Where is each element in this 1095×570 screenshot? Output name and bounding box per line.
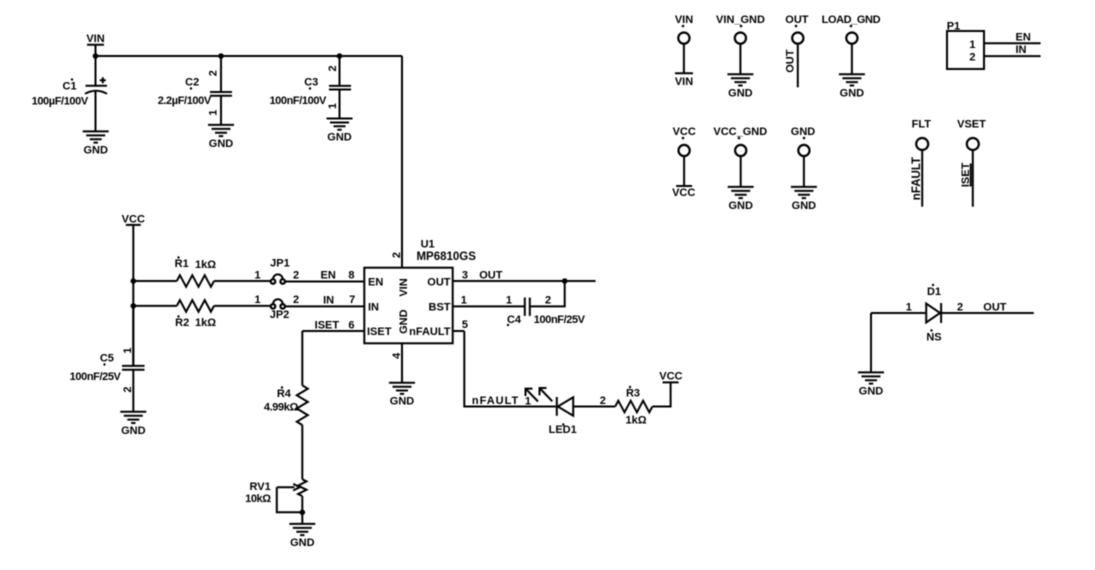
svg-text:FLT: FLT [912, 119, 932, 131]
node junction at C2 [218, 53, 224, 59]
wire RV1 to ground [301, 512, 303, 524]
svg-text:U1: U1 [421, 238, 435, 250]
svg-text:JP1: JP1 [270, 258, 290, 270]
wire D1 cathode to OUT [941, 302, 1034, 314]
resistor R1 1k [133, 256, 270, 287]
connector FLT (test point) [911, 119, 931, 207]
svg-text:LOAD_GND: LOAD_GND [822, 14, 881, 26]
svg-text:2: 2 [545, 295, 551, 307]
svg-text:GND: GND [791, 126, 816, 138]
diode D1 NS [871, 284, 963, 344]
svg-text:2: 2 [969, 52, 975, 64]
svg-text:EN: EN [321, 270, 336, 282]
svg-text:nFAULT: nFAULT [911, 157, 923, 200]
svg-text:VCC_GND: VCC_GND [713, 126, 767, 138]
svg-text:2: 2 [207, 70, 219, 76]
ground under C1 [83, 131, 109, 156]
svg-text:NS: NS [926, 332, 941, 344]
node junction OUT/C4 [562, 278, 568, 284]
svg-text:D1: D1 [927, 286, 941, 298]
wire U1 BST pin 1 to C4 [453, 295, 525, 307]
svg-text:C3: C3 [304, 77, 318, 89]
svg-text:C4: C4 [507, 314, 522, 326]
potentiometer RV1 10k [245, 479, 306, 512]
resistor R4 4.99k [264, 385, 308, 425]
connector P1 header [947, 21, 984, 70]
svg-text:100nF/100V: 100nF/100V [269, 95, 327, 107]
connector GND (test point) [791, 126, 816, 187]
ground under D1 [858, 372, 884, 397]
svg-text:1: 1 [506, 295, 512, 307]
svg-text:4.99kΩ: 4.99kΩ [264, 401, 299, 413]
svg-text:VIN: VIN [675, 14, 693, 26]
wire P1 pin 2 net IN [984, 44, 1041, 56]
svg-text:MP6810GS: MP6810GS [416, 251, 476, 263]
connector LOAD_GND [822, 14, 881, 74]
ground under C2 [208, 125, 234, 150]
ground under C5 [120, 412, 146, 437]
svg-text:OUT: OUT [983, 302, 1007, 314]
wire VCC vertical to R2/C5 [132, 281, 134, 365]
svg-text:OUT: OUT [785, 14, 809, 26]
power port VCC (left) [122, 213, 145, 281]
svg-text:R4: R4 [277, 388, 292, 400]
ground under LOAD_GND [839, 74, 865, 99]
wire U1 GND pin 4 [401, 343, 403, 382]
capacitor C4 100nF/25V [506, 295, 586, 326]
connector OUT (test point) [784, 14, 808, 87]
svg-text:nFAULT: nFAULT [472, 395, 519, 407]
capacitor C2 2.2uF/100V [158, 56, 232, 125]
svg-text:ISET: ISET [315, 320, 340, 332]
svg-text:1: 1 [122, 348, 134, 354]
svg-text:2: 2 [327, 65, 339, 71]
svg-text:VIN: VIN [86, 33, 104, 45]
wire R4 to RV1 [301, 425, 303, 479]
power port VCC (right of R3) [659, 371, 682, 383]
svg-text:3: 3 [462, 270, 468, 282]
svg-text:6: 6 [348, 320, 354, 332]
wire U1 ISET pin 6 to R4 [302, 320, 364, 386]
wire rail drop to U1 VIN pin [401, 56, 403, 268]
svg-text:EN: EN [368, 276, 383, 288]
jumper JP2 [254, 294, 299, 321]
svg-text:VIN: VIN [675, 76, 693, 88]
svg-text:2: 2 [293, 294, 299, 306]
LED LED1 [525, 388, 577, 436]
svg-text:IN: IN [323, 294, 334, 306]
connector VCC (test point) [673, 126, 696, 186]
svg-text:R3: R3 [626, 388, 640, 400]
svg-text:nFAULT: nFAULT [409, 326, 451, 338]
svg-text:100nF/25V: 100nF/25V [534, 314, 586, 326]
wire C4 to OUT junction [530, 281, 564, 306]
svg-text:1: 1 [906, 301, 912, 313]
wire U1 nFAULT pin 5 down to LED [453, 319, 556, 407]
node junction VCC/R2/C5 [131, 303, 137, 309]
svg-text:100nF/25V: 100nF/25V [70, 371, 122, 383]
svg-text:GND: GND [398, 309, 410, 334]
svg-text:VSET: VSET [957, 119, 986, 131]
svg-text:BST: BST [429, 301, 451, 313]
svg-text:2: 2 [957, 301, 963, 313]
svg-text:1kΩ: 1kΩ [625, 415, 646, 427]
svg-text:1: 1 [461, 295, 467, 307]
svg-text:VIN_GND: VIN_GND [716, 14, 765, 26]
svg-text:2: 2 [600, 395, 606, 407]
svg-text:C1: C1 [63, 81, 77, 93]
svg-text:OUT: OUT [427, 276, 451, 288]
svg-text:C2: C2 [185, 77, 199, 89]
svg-text:IN: IN [1016, 44, 1027, 56]
power port VIN (below connector) [675, 73, 693, 88]
capacitor C1 100uF/100V (polarized) [32, 56, 107, 131]
svg-text:8: 8 [348, 269, 354, 281]
node junction VCC/R1 [131, 278, 137, 284]
svg-text:IN: IN [368, 301, 379, 313]
svg-text:1: 1 [254, 294, 260, 306]
svg-text:OUT: OUT [784, 49, 796, 72]
wire VIN top rail [96, 55, 403, 57]
power port VCC (below connector) [672, 186, 695, 199]
svg-text:1: 1 [327, 103, 339, 109]
svg-text:EN: EN [1016, 32, 1031, 44]
svg-text:10kΩ: 10kΩ [245, 493, 271, 505]
svg-text:VCC: VCC [673, 126, 696, 138]
ground under C3 [327, 119, 353, 144]
connector VIN (test point) [675, 14, 693, 73]
connector VCC_GND [713, 126, 767, 187]
svg-text:VIN: VIN [398, 278, 410, 296]
svg-text:7: 7 [349, 294, 355, 306]
node junction at C1 [93, 53, 99, 59]
svg-text:2: 2 [122, 386, 134, 392]
connector VSET (test point) [957, 119, 986, 207]
resistor R3 1k [615, 386, 652, 427]
wire JP1 to EN pin 8 [285, 269, 364, 281]
svg-text:1: 1 [207, 110, 219, 116]
capacitor C3 100nF/100V [269, 56, 351, 119]
svg-text:C5: C5 [100, 353, 114, 365]
svg-text:1kΩ: 1kΩ [195, 317, 216, 329]
ground under RV1 [289, 524, 315, 549]
svg-text:1: 1 [969, 39, 975, 51]
svg-text:OUT: OUT [479, 270, 503, 282]
wire JP2 to IN pin 7 [285, 294, 364, 306]
wire P1 pin 1 net EN [984, 32, 1041, 44]
wire R3 to VCC [652, 382, 670, 406]
wire U1 OUT pin 3 to OUT net [453, 270, 596, 282]
svg-text:VCC: VCC [672, 187, 695, 199]
op-amp U1 MP6810GS body [364, 238, 476, 343]
svg-text:R2: R2 [175, 317, 189, 329]
jumper JP1 [254, 258, 299, 284]
svg-text:VCC: VCC [122, 213, 145, 225]
ground under VCC_GND [728, 187, 754, 212]
ground under VIN_GND [727, 74, 753, 99]
svg-text:VCC: VCC [659, 371, 682, 383]
svg-text:LED1: LED1 [549, 424, 577, 436]
svg-text:RV1: RV1 [249, 481, 270, 493]
power port VIN (top left) [86, 33, 104, 56]
svg-text:5: 5 [462, 319, 468, 331]
svg-text:R1: R1 [175, 258, 189, 270]
ground under U1 [389, 383, 415, 408]
svg-text:1: 1 [254, 269, 260, 281]
ground under GND connector [791, 187, 817, 212]
svg-text:2: 2 [391, 252, 403, 258]
svg-text:2: 2 [293, 269, 299, 281]
resistor R2 1k [133, 300, 270, 329]
wire LED1 to R3 [573, 395, 615, 407]
svg-text:1kΩ: 1kΩ [195, 259, 216, 271]
svg-text:1: 1 [525, 396, 531, 408]
wire D1 anode to ground [870, 313, 872, 372]
svg-text:ISET: ISET [367, 326, 392, 338]
node junction at C3 [337, 53, 343, 59]
node junction RV1 wiper [300, 510, 306, 516]
svg-text:JP2: JP2 [270, 309, 290, 321]
svg-text:2.2µF/100V: 2.2µF/100V [158, 95, 212, 107]
connector VIN_GND [716, 14, 765, 74]
capacitor C5 100nF/25V [70, 306, 145, 412]
svg-text:100µF/100V: 100µF/100V [32, 95, 89, 107]
